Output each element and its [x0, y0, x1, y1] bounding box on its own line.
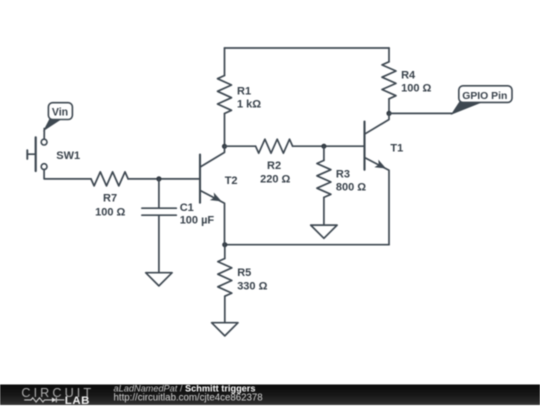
- wire top rail R1-R4: [225, 47, 390, 49]
- svg-text:T1: T1: [390, 142, 403, 154]
- resistor R3: [317, 146, 366, 225]
- capacitor C1: [142, 179, 215, 273]
- svg-text:330 Ω: 330 Ω: [237, 280, 267, 292]
- svg-text:GPIO Pin: GPIO Pin: [462, 91, 507, 102]
- wire R2 right to T1 base: [293, 145, 365, 147]
- resistor R7: [91, 172, 128, 218]
- node R7 / C1 / T2 base junction: [156, 176, 161, 181]
- svg-text:T2: T2: [225, 175, 238, 187]
- transistor T2: [200, 146, 238, 244]
- wire switch to R7: [44, 170, 91, 179]
- footer bar: [0, 385, 540, 406]
- wire R2 left lead: [225, 145, 256, 147]
- svg-text:100 Ω: 100 Ω: [401, 83, 431, 95]
- svg-text:C1: C1: [180, 202, 194, 214]
- svg-text:100 µF: 100 µF: [180, 215, 215, 227]
- wire R7 to T2 base: [128, 178, 200, 180]
- node R4 / T1 collector / GPIO junction: [386, 111, 391, 116]
- svg-text:SW1: SW1: [56, 150, 80, 162]
- node collector T2 / R1 / R2 junction: [222, 144, 227, 149]
- svg-text:R4: R4: [401, 69, 416, 81]
- svg-text:100 Ω: 100 Ω: [95, 206, 125, 218]
- resistor R1: [218, 48, 262, 146]
- svg-text:http://circuitlab.com/cjte4ce8: http://circuitlab.com/cjte4ce862378: [114, 393, 263, 404]
- net flag Vin: [44, 103, 72, 140]
- node T2 emitter / R5 junction: [222, 242, 227, 247]
- svg-text:LAB: LAB: [65, 395, 90, 405]
- net flag GPIO Pin: [452, 86, 512, 114]
- wire bottom emitter rail: [225, 244, 389, 246]
- ground for R3: [311, 225, 337, 238]
- svg-text:R7: R7: [103, 192, 117, 204]
- node R2 / R3 / T1 base junction: [321, 144, 326, 149]
- svg-text:1 kΩ: 1 kΩ: [237, 99, 261, 111]
- svg-text:R1: R1: [237, 86, 251, 98]
- ground for C1: [146, 273, 172, 286]
- resistor R5: [218, 245, 268, 323]
- svg-text:800 Ω: 800 Ω: [336, 181, 366, 193]
- wire to GPIO flag: [389, 112, 452, 114]
- svg-text:R5: R5: [237, 267, 251, 279]
- switch SW1: [27, 137, 80, 171]
- CircuitLab logo: [21, 386, 94, 407]
- svg-text:R2: R2: [267, 160, 281, 172]
- ground for R5: [212, 323, 238, 336]
- transistor T1: [365, 113, 404, 244]
- resistor R4: [382, 48, 432, 113]
- resistor R2: [256, 139, 293, 185]
- svg-text:R3: R3: [336, 169, 350, 181]
- svg-text:Vin: Vin: [52, 107, 68, 119]
- svg-text:220 Ω: 220 Ω: [260, 174, 290, 186]
